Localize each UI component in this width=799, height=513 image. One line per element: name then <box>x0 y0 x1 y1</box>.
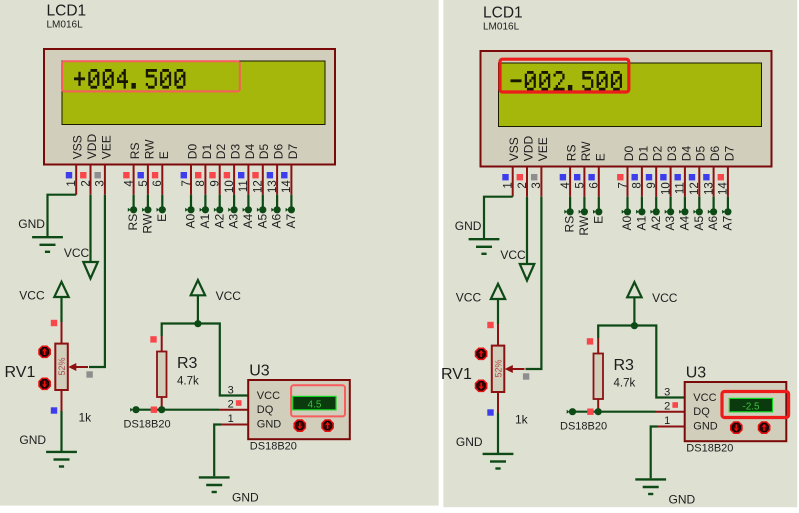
svg-text:9: 9 <box>646 182 658 188</box>
R3 bottom pin stub (right panel) <box>597 399 599 412</box>
terminal dot RW <box>142 208 145 212</box>
junction node at R3 bottom <box>158 406 165 413</box>
svg-text:4: 4 <box>123 180 135 187</box>
terminal dot E (right panel) <box>593 210 596 214</box>
svg-text:1: 1 <box>228 413 234 425</box>
svg-text:3: 3 <box>95 180 107 186</box>
svg-text:3: 3 <box>531 182 543 188</box>
svg-text:RS: RS <box>126 214 140 231</box>
svg-text:RW: RW <box>141 213 155 233</box>
wire RV1 bottom to ground (right panel) <box>497 413 499 454</box>
svg-text:-2.5: -2.5 <box>742 401 760 412</box>
wire VDD to VCC terminal (right panel) <box>526 197 528 264</box>
LCD1 pin 7 stub <box>190 165 192 195</box>
svg-text:E: E <box>157 151 171 159</box>
U3 decrement button (right panel) <box>731 422 742 433</box>
svg-text:10: 10 <box>660 182 672 195</box>
LCD1 screen text +004.500 <box>74 69 185 89</box>
pin 12 state square (right panel) <box>689 174 695 180</box>
LCD1 body <box>44 49 335 165</box>
svg-text:6: 6 <box>152 180 164 186</box>
ground below RV1 (right panel) <box>483 453 514 455</box>
RV1 wiper state square (gray) (right panel) <box>523 373 529 379</box>
LCD1 screen text -002.500 (right panel) <box>511 71 622 91</box>
svg-text:D5: D5 <box>257 144 271 160</box>
wire VCC to junction (right panel) <box>633 297 635 326</box>
RV1 decrement knob (right panel) <box>476 380 487 391</box>
pin 4 state square (right panel) <box>560 174 566 180</box>
wire pin 10 to terminal <box>233 195 235 207</box>
svg-text:U3: U3 <box>249 363 270 380</box>
svg-text:9: 9 <box>210 180 222 186</box>
svg-text:GND: GND <box>18 217 45 231</box>
svg-text:1: 1 <box>66 180 78 186</box>
power terminal VCC above R3 (right panel) <box>627 282 641 297</box>
svg-text:LCD1: LCD1 <box>483 5 523 22</box>
pin 6 state square <box>152 172 158 178</box>
pin 2 state square <box>80 172 86 178</box>
wire pin 12 to terminal <box>262 195 264 207</box>
svg-text:A5: A5 <box>692 215 706 230</box>
svg-text:A0: A0 <box>620 215 634 230</box>
wire pin 8 to terminal <box>204 195 206 207</box>
svg-text:D1: D1 <box>200 144 214 160</box>
pin 11 state square <box>238 172 244 178</box>
svg-text:A2: A2 <box>649 215 663 230</box>
U3 GND pin stub <box>221 424 248 426</box>
LCD1 pin 7 stub (right panel) <box>627 167 629 197</box>
svg-text:A7: A7 <box>284 213 298 228</box>
wire pin 8 to terminal (right panel) <box>641 197 643 209</box>
svg-text:D4: D4 <box>243 144 257 160</box>
RV1 wiper arrow (right panel) <box>511 368 525 370</box>
svg-text:RV1: RV1 <box>5 364 36 381</box>
svg-text:VSS: VSS <box>71 135 85 159</box>
RV1 top pin stub (right panel) <box>497 324 499 346</box>
svg-text:A6: A6 <box>706 215 720 230</box>
wire VCC to RV1 top <box>60 296 62 322</box>
svg-text:14: 14 <box>281 180 293 193</box>
terminal dot A3 <box>228 208 231 212</box>
potentiometer RV1 body <box>55 344 68 390</box>
svg-text:A1: A1 <box>198 213 212 228</box>
svg-text:DQ: DQ <box>257 404 274 416</box>
terminal dot A1 (right panel) <box>636 210 639 214</box>
svg-text:DS18B20: DS18B20 <box>560 421 607 433</box>
LCD1 screen <box>62 61 325 125</box>
pin 10 state square (right panel) <box>660 174 666 180</box>
pin 10 state square <box>224 172 230 178</box>
LCD1 pin 4 stub (right panel) <box>569 167 571 197</box>
pin 14 state square (right panel) <box>718 174 724 180</box>
wire pin 10 to terminal (right panel) <box>669 197 671 209</box>
wire R3 top to U3 VCC <box>162 324 248 396</box>
ground below U3 (right panel) <box>635 478 666 480</box>
RV1 bottom pin stub <box>61 390 63 411</box>
wire VSS to ground (right panel) <box>484 197 513 238</box>
svg-text:13: 13 <box>267 180 279 193</box>
svg-text:D0: D0 <box>186 144 200 160</box>
LCD1 pin 8 stub <box>204 165 206 195</box>
pin 3 state square <box>95 172 101 178</box>
pin 6 state square (right panel) <box>588 174 594 180</box>
svg-text:4.5: 4.5 <box>308 399 322 410</box>
pin 9 state square (right panel) <box>646 174 652 180</box>
LCD1 pin 6 stub (right panel) <box>598 167 600 197</box>
RV1 decrement knob <box>39 378 50 389</box>
LCD1 pin 4 stub <box>133 165 135 195</box>
power terminal VCC (down) <box>83 262 98 279</box>
LCD1 pin 1 stub <box>75 165 77 195</box>
svg-text:11: 11 <box>675 182 687 194</box>
ground below U3 <box>199 476 230 478</box>
svg-text:7: 7 <box>181 180 193 186</box>
wire U3 GND to ground <box>214 425 221 477</box>
wire pin 11 to terminal (right panel) <box>684 197 686 209</box>
LCD1 pin 5 stub (right panel) <box>583 167 585 197</box>
LCD1 body (right panel) <box>481 51 772 167</box>
svg-text:A1: A1 <box>635 215 649 230</box>
RV1 top pin stub <box>61 322 63 344</box>
terminal dot A2 <box>214 208 217 212</box>
wire RV1 bottom to ground <box>60 411 62 452</box>
terminal dot A5 (right panel) <box>693 210 696 214</box>
terminal dot DS18B20 node (right panel) <box>567 410 570 414</box>
svg-text:A0: A0 <box>184 213 198 228</box>
wire VEE to RV1 wiper <box>89 195 105 367</box>
svg-text:GND: GND <box>232 491 259 505</box>
svg-text:RW: RW <box>577 215 591 235</box>
svg-text:VCC: VCC <box>652 291 678 305</box>
DQ wire state square (red) <box>151 407 157 413</box>
U3 pin 2 state square (red) <box>236 400 242 406</box>
svg-text:E: E <box>593 153 607 161</box>
U3 decrement button <box>294 420 305 431</box>
LCD1 pin 12 stub <box>262 165 264 195</box>
terminal dot A0 <box>185 208 188 212</box>
svg-text:A6: A6 <box>270 213 284 228</box>
terminal dot A4 <box>243 208 246 212</box>
LCD1 pin 1 stub (right panel) <box>512 167 514 197</box>
svg-text:2: 2 <box>517 182 529 188</box>
svg-text:A3: A3 <box>227 213 241 228</box>
sensor U3 body <box>248 380 350 439</box>
svg-text:E: E <box>591 216 605 224</box>
RV1 bottom state square (blue) (right panel) <box>487 409 493 415</box>
svg-text:RS: RS <box>565 145 579 162</box>
svg-text:GND: GND <box>669 493 696 507</box>
wire pin 5 to terminal <box>147 195 149 207</box>
svg-text:8: 8 <box>195 180 207 186</box>
svg-text:U3: U3 <box>686 365 707 382</box>
LCD1 pin 14 stub (right panel) <box>727 167 729 197</box>
LCD1 screen (right panel) <box>499 63 762 127</box>
LCD1 pin 3 stub <box>104 165 106 195</box>
svg-text:VCC: VCC <box>693 392 716 404</box>
svg-text:DS18B20: DS18B20 <box>686 443 733 455</box>
svg-text:GND: GND <box>456 435 483 449</box>
svg-text:8: 8 <box>632 182 644 188</box>
wire pin 14 to terminal (right panel) <box>727 197 729 209</box>
svg-text:VCC: VCC <box>19 289 45 303</box>
LCD1 pin 14 stub <box>290 165 292 195</box>
svg-text:VCC: VCC <box>500 248 526 262</box>
pin 4 state square <box>123 172 129 178</box>
svg-text:D0: D0 <box>622 146 636 162</box>
svg-text:A2: A2 <box>212 213 226 228</box>
U3 temperature display <box>293 396 336 409</box>
svg-text:4.7k: 4.7k <box>614 378 636 390</box>
svg-text:5: 5 <box>138 180 150 186</box>
svg-text:GND: GND <box>257 418 282 430</box>
svg-text:3: 3 <box>228 384 234 396</box>
terminal dot RS <box>128 208 131 212</box>
potentiometer RV1 body (right panel) <box>492 346 505 392</box>
pin 13 state square (right panel) <box>703 174 709 180</box>
ground at VSS (right panel) <box>469 238 500 240</box>
svg-text:D2: D2 <box>214 144 228 160</box>
wire pin 6 to terminal <box>161 195 163 207</box>
wire VDD to VCC terminal <box>89 195 91 262</box>
selection box around LCD text (right panel) <box>500 59 629 92</box>
LCD1 pin 8 stub (right panel) <box>641 167 643 197</box>
svg-text:6: 6 <box>589 182 601 188</box>
svg-text:D4: D4 <box>679 146 693 162</box>
wire DS18B20 node to U3 DQ <box>136 409 219 411</box>
terminal dot A6 (right panel) <box>708 210 711 214</box>
svg-text:52%: 52% <box>57 357 67 375</box>
svg-text:RV1: RV1 <box>441 366 472 383</box>
RV1 bottom state square (blue) <box>51 407 57 413</box>
svg-text:D1: D1 <box>636 146 650 162</box>
svg-text:2: 2 <box>228 399 234 411</box>
terminal dot DS18B20 node <box>130 408 133 412</box>
wire pin 7 to terminal (right panel) <box>626 197 628 209</box>
LCD1 pin 6 stub <box>161 165 163 195</box>
LCD1 pin 13 stub (right panel) <box>713 167 715 197</box>
svg-text:4.7k: 4.7k <box>177 376 199 388</box>
pin 11 state square (right panel) <box>675 174 681 180</box>
LCD1 pin 11 stub (right panel) <box>684 167 686 197</box>
selection box around LCD text <box>62 61 240 91</box>
wire pin 9 to terminal (right panel) <box>655 197 657 209</box>
RV1 wiper state square (gray) <box>86 371 92 377</box>
svg-text:D3: D3 <box>229 144 243 160</box>
wire pin 13 to terminal <box>276 195 278 207</box>
terminal dot A3 (right panel) <box>665 210 668 214</box>
pin 7 state square <box>181 172 187 178</box>
R3 top state square (red) <box>150 336 156 342</box>
svg-text:5: 5 <box>574 182 586 188</box>
terminal dot RW (right panel) <box>579 210 582 214</box>
LCD1 pin 3 stub (right panel) <box>540 167 542 197</box>
svg-text:DS18B20: DS18B20 <box>124 419 171 431</box>
wire VEE to RV1 wiper (right panel) <box>526 197 542 369</box>
svg-text:VDD: VDD <box>85 134 99 160</box>
pin 8 state square (right panel) <box>632 174 638 180</box>
terminal dot A6 <box>271 208 274 212</box>
pin 2 state square (right panel) <box>517 174 523 180</box>
svg-text:52%: 52% <box>493 359 503 377</box>
pin 8 state square <box>195 172 201 178</box>
svg-text:E: E <box>155 214 169 222</box>
svg-text:RS: RS <box>563 216 577 233</box>
wire pin 5 to terminal (right panel) <box>583 197 585 209</box>
wire pin 9 to terminal <box>219 195 221 207</box>
svg-text:RW: RW <box>579 141 593 161</box>
U3 increment button <box>322 420 333 431</box>
svg-text:A4: A4 <box>241 213 255 228</box>
terminal dot A2 (right panel) <box>650 210 653 214</box>
svg-text:D5: D5 <box>694 146 708 162</box>
terminal dot A4 (right panel) <box>679 210 682 214</box>
svg-text:2: 2 <box>664 401 670 413</box>
ground at VSS <box>32 236 63 238</box>
svg-text:1: 1 <box>503 182 515 188</box>
svg-text:GND: GND <box>455 219 482 233</box>
svg-text:A4: A4 <box>678 215 692 230</box>
RV1 increment knob <box>39 346 50 357</box>
svg-text:7: 7 <box>617 182 629 188</box>
RV1 bottom pin stub (right panel) <box>497 392 499 413</box>
svg-text:DS18B20: DS18B20 <box>250 441 297 453</box>
U3 increment button (right panel) <box>759 422 770 433</box>
svg-text:1: 1 <box>664 415 670 427</box>
svg-text:VCC: VCC <box>456 291 482 305</box>
LCD1 pin 2 stub <box>90 165 92 195</box>
R3 top pin stub <box>161 336 163 352</box>
svg-text:D7: D7 <box>722 146 736 162</box>
svg-text:RS: RS <box>128 143 142 160</box>
terminal dot A1 <box>200 208 203 212</box>
wire pin 6 to terminal (right panel) <box>598 197 600 209</box>
svg-text:A7: A7 <box>721 215 735 230</box>
wire pin 11 to terminal <box>247 195 249 207</box>
wire VCC to RV1 top (right panel) <box>497 298 499 324</box>
svg-text:RW: RW <box>142 139 156 159</box>
resistor R3 body (right panel) <box>594 354 604 400</box>
ground below RV1 <box>46 451 77 453</box>
svg-text:D6: D6 <box>708 146 722 162</box>
svg-text:VSS: VSS <box>507 137 521 161</box>
svg-text:D7: D7 <box>286 144 300 160</box>
svg-text:LM016L: LM016L <box>47 20 84 31</box>
svg-text:14: 14 <box>718 182 730 195</box>
svg-text:VEE: VEE <box>536 137 550 161</box>
power terminal VCC above RV1 <box>54 282 68 297</box>
pin 14 state square <box>281 172 287 178</box>
wire U3 GND to ground (right panel) <box>651 427 658 479</box>
terminal dot RS (right panel) <box>564 210 567 214</box>
LCD1 pin 13 stub <box>276 165 278 195</box>
RV1 top state square (red) (right panel) <box>487 322 493 328</box>
svg-text:3: 3 <box>664 386 670 398</box>
svg-text:12: 12 <box>253 180 265 193</box>
resistor R3 body <box>157 352 167 398</box>
pin 13 state square <box>267 172 273 178</box>
svg-text:LM016L: LM016L <box>483 22 520 33</box>
LCD1 pin 9 stub <box>219 165 221 195</box>
svg-text:VCC: VCC <box>64 246 90 260</box>
svg-text:A5: A5 <box>255 213 269 228</box>
U3 GND pin stub (right panel) <box>658 426 685 428</box>
svg-text:R3: R3 <box>614 357 635 374</box>
svg-text:VEE: VEE <box>99 135 113 159</box>
wire VCC to junction <box>197 295 199 324</box>
svg-text:DQ: DQ <box>693 406 710 418</box>
svg-text:R3: R3 <box>177 355 198 372</box>
power terminal VCC above R3 <box>191 280 205 295</box>
svg-text:4: 4 <box>560 182 572 189</box>
wire R3 top to U3 VCC (right panel) <box>598 326 684 398</box>
wire pin 14 to terminal <box>290 195 292 207</box>
svg-text:VCC: VCC <box>216 289 242 303</box>
wire pin 7 to terminal <box>190 195 192 207</box>
svg-text:10: 10 <box>224 180 236 193</box>
terminal dot E <box>157 208 160 212</box>
wire pin 4 to terminal (right panel) <box>569 197 571 209</box>
svg-text:D2: D2 <box>651 146 665 162</box>
junction node at VCC (right panel) <box>631 322 638 329</box>
pin 7 state square (right panel) <box>617 174 623 180</box>
selection box around U3 display (right panel) <box>722 392 789 418</box>
wire pin 4 to terminal <box>133 195 135 207</box>
power terminal VCC (down) (right panel) <box>520 264 535 281</box>
power terminal VCC above RV1 (right panel) <box>491 284 505 299</box>
RV1 wiper arrow <box>74 366 88 368</box>
svg-text:11: 11 <box>238 180 250 192</box>
pin 12 state square <box>252 172 258 178</box>
U3 DQ pin stub (right panel) <box>656 411 685 413</box>
terminal dot A5 <box>257 208 260 212</box>
RV1 top state square (red) <box>51 320 57 326</box>
R3 top state square (red) (right panel) <box>587 338 593 344</box>
LCD1 pin 9 stub (right panel) <box>655 167 657 197</box>
wire pin 13 to terminal (right panel) <box>712 197 714 209</box>
LCD1 pin 2 stub (right panel) <box>526 167 528 197</box>
wire pin 12 to terminal (right panel) <box>698 197 700 209</box>
LCD1 pin 10 stub <box>233 165 235 195</box>
svg-text:VCC: VCC <box>257 390 280 402</box>
LCD1 pin 5 stub <box>147 165 149 195</box>
junction node at R3 bottom (right panel) <box>595 408 602 415</box>
left schematic panel background <box>0 0 439 506</box>
terminal dot A7 (right panel) <box>722 210 725 214</box>
pin 1 state square (right panel) <box>502 174 508 180</box>
pin 5 state square (right panel) <box>574 174 580 180</box>
svg-text:13: 13 <box>703 182 715 195</box>
LCD1 pin 10 stub (right panel) <box>670 167 672 197</box>
U3 temperature display (right panel) <box>729 398 772 411</box>
pin 9 state square <box>209 172 215 178</box>
sensor U3 body (right panel) <box>685 382 787 441</box>
svg-text:D3: D3 <box>665 146 679 162</box>
junction node at VCC <box>194 320 201 327</box>
svg-text:1k: 1k <box>515 413 529 427</box>
svg-text:D6: D6 <box>272 144 286 160</box>
svg-text:GND: GND <box>693 420 718 432</box>
svg-text:1k: 1k <box>79 411 93 425</box>
U3 DQ pin stub <box>219 409 248 411</box>
RV1 increment knob (right panel) <box>476 348 487 359</box>
R3 top pin stub (right panel) <box>597 338 599 354</box>
terminal dot A7 <box>286 208 289 212</box>
svg-text:12: 12 <box>689 182 701 195</box>
LCD1 pin 11 stub <box>247 165 249 195</box>
wire VSS to ground <box>48 195 77 236</box>
svg-text:VDD: VDD <box>522 136 536 162</box>
pin 3 state square (right panel) <box>531 174 537 180</box>
